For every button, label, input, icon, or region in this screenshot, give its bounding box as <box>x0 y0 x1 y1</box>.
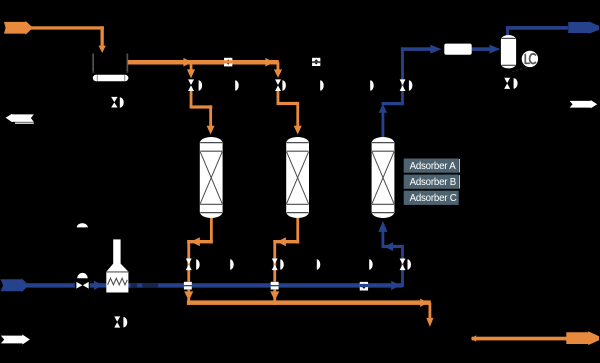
wire dashed signal LC to valve <box>513 68 527 72</box>
wire blue riser to adsorber C bottom <box>401 248 404 287</box>
junction crossing B white bars <box>271 282 279 285</box>
vessel flash drum horizontal boot drum <box>93 75 129 81</box>
wire orange branch to adsorber A <box>190 65 193 70</box>
valve flash drum bottoms (hourglass + indicator) <box>111 97 124 108</box>
valve unit bottom row C regen (open) <box>400 259 411 271</box>
arrow white in bottom left <box>1 335 30 345</box>
wire blue main line bottom <box>27 283 403 287</box>
valve heater drain (hourglass + indicator) <box>114 316 127 327</box>
wire blue product exit banner arrow <box>568 21 599 34</box>
svg-text:Adsorber C: Adsorber C <box>410 193 457 204</box>
wire blue main line end arrow <box>391 281 400 290</box>
valve unit top row 2 (closed, indicator only) <box>235 80 239 90</box>
svg-text:Adsorber B: Adsorber B <box>410 177 456 188</box>
wire blue product line from KO drum top <box>506 28 509 36</box>
vessel adsorber A column <box>200 137 223 218</box>
vessel adsorber C column <box>372 137 395 218</box>
wire blue arrow after control valve <box>94 281 103 290</box>
valve unit top row B feed (open) <box>275 79 286 91</box>
wire orange tail gas exit banner arrow <box>566 331 599 345</box>
vessel KO drum level line <box>501 37 515 39</box>
svg-text:Adsorber A: Adsorber A <box>410 161 457 172</box>
wire orange bottom header drop <box>429 303 432 319</box>
valve unit top row C product (open) <box>400 79 413 91</box>
label box Adsorber C <box>404 191 459 205</box>
valve KO drum bottoms (hourglass + indicator) <box>504 78 517 89</box>
junction crossing A white bars <box>184 282 192 285</box>
wire orange adsorber A bottom outlet <box>210 218 213 244</box>
wire orange header <box>128 60 279 65</box>
valve unit top row A feed (open) <box>188 79 202 91</box>
wire orange bottom header <box>187 300 431 305</box>
wire orange branch to adsorber B <box>277 62 280 70</box>
wire blue line filter to KO drum <box>472 47 491 51</box>
valve unit bottom row 4 (closed, indicator only) <box>317 259 321 269</box>
heater H-101 <box>106 239 128 292</box>
wire orange header arrow 2 <box>265 58 274 67</box>
arrow white out right <box>570 100 598 108</box>
valve gate isolated (dark line) top <box>312 58 320 66</box>
valve gate on orange header <box>224 58 232 67</box>
valve unit bottom row B purge (open) <box>272 259 284 271</box>
instrument LC level controller <box>522 51 538 67</box>
vessel flash drum V-101 walls <box>92 54 94 72</box>
label box Adsorber A <box>404 159 460 173</box>
wire orange header arrow 1 <box>183 58 192 67</box>
wire blue feed entry banner arrow <box>1 278 29 292</box>
wire orange feed entry banner arrow <box>4 21 33 35</box>
arrow white recycle out left <box>6 114 34 123</box>
wire orange adsorber B bottom outlet <box>296 218 299 244</box>
vessel KO drum V-102 <box>501 35 516 68</box>
wire orange feed drop into drum <box>101 26 104 46</box>
control valve FV on blue line (bowtie + dome) <box>75 281 90 289</box>
valve unit bottom row 2 (closed, indicator only) <box>230 259 234 269</box>
valve gate on blue main line <box>360 282 368 291</box>
valve unit bottom row A purge (open) <box>186 259 200 271</box>
wire orange tail gas exit line <box>472 337 570 341</box>
arrow white underline <box>15 123 34 124</box>
valve unit bottom row 5 (closed, indicator only) <box>369 259 373 269</box>
label box Adsorber B <box>404 175 460 189</box>
wire blue adsorber C top outlet <box>382 112 385 137</box>
valve unit top row 4 (closed, indicator only) <box>320 80 324 90</box>
valve unit top row 5 (closed, indicator only) <box>370 80 374 90</box>
vessel adsorber B column <box>286 137 309 218</box>
filter F-101 <box>444 44 471 55</box>
instrument dome (pump top) <box>77 223 88 227</box>
wire orange feed line top <box>31 26 104 29</box>
